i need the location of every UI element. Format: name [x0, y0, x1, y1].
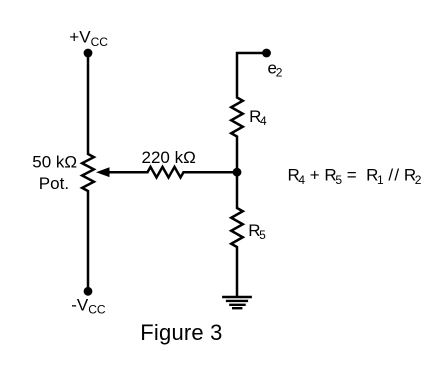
svg-text:Figure 3: Figure 3 [140, 320, 222, 345]
svg-text:220 kΩ: 220 kΩ [142, 148, 196, 167]
svg-text:Pot.: Pot. [39, 174, 69, 193]
svg-text:50 kΩ: 50 kΩ [32, 153, 77, 172]
svg-text:R4 + R5 = R1 // R2: R4 + R5 = R1 // R2 [288, 166, 422, 187]
